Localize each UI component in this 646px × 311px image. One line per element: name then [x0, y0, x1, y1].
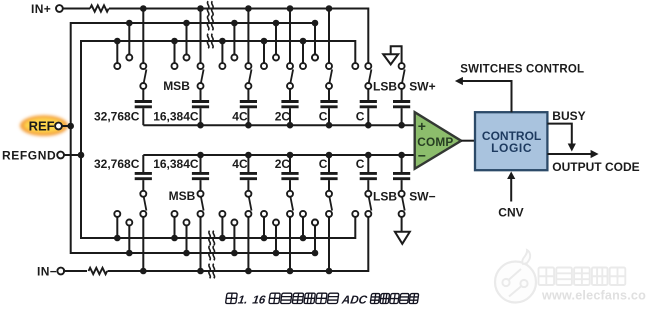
svg-text:MSB: MSB: [169, 189, 196, 203]
switch S9 contact (IN-): [198, 211, 204, 217]
wire IN- rail: [108, 217, 369, 271]
arrowhead BUSY (down): [568, 144, 576, 152]
capacitor C1: [135, 100, 152, 103]
wire stub from switch S10 contact to REFGND rail: [221, 217, 223, 238]
resistor R1 (IN+): [90, 5, 109, 11]
capacitor C7: [393, 100, 410, 103]
wire from capacitor to switch S8 pivot: [142, 180, 144, 191]
switch contact at REF rail top right end: [312, 55, 318, 61]
wire stub from switch S9 contact to REFGND rail: [174, 217, 176, 238]
wire stub from REF rail to switch S1 contact: [126, 20, 133, 27]
control logic block U2: [475, 112, 547, 170]
switch S10 contact (REF): [231, 220, 237, 226]
wire capacitor C13 to switch S13 pivot: [367, 180, 369, 191]
switch S6 lever (LSB): [369, 69, 372, 83]
wire IN- rail segment before resistor: [63, 270, 87, 272]
wire hook from ground to SW+ contact: [391, 46, 402, 63]
wire IN+ rail: [109, 9, 368, 64]
svg-text:C: C: [319, 109, 328, 123]
capacitor C11: [281, 177, 298, 180]
capacitor C9: [192, 177, 209, 180]
wire stub from switch S11 contact to REFGND rail: [263, 217, 265, 238]
wire stub from IN+ rail to switch S2 contact: [197, 5, 204, 12]
capacitor C8: [135, 177, 152, 180]
wire SW- contact to ground: [401, 217, 403, 232]
svg-text:C: C: [356, 157, 365, 171]
ground symbol below SW-: [395, 232, 410, 244]
wire stub from REFGND rail to switch S4 contact: [261, 38, 268, 45]
svg-text:BUSY: BUSY: [552, 109, 585, 123]
wire BUSY from control logic: [547, 124, 571, 144]
switch S13 contact (IN- rail end): [365, 211, 371, 217]
switch S11 lever: [290, 197, 293, 211]
svg-text:REFGND: REFGND: [2, 148, 56, 162]
switch contact at REFGND rail bottom right end (LSB switch): [352, 211, 358, 217]
switch S13 lever (LSB): [369, 197, 372, 211]
switch contact at REFGND rail top right end (LSB switch): [352, 63, 358, 69]
switch S11 contact (REF): [273, 220, 279, 226]
capacitor C13: [360, 177, 377, 180]
svg-text:4C: 4C: [232, 157, 248, 171]
terminal IN-: [57, 268, 64, 275]
wire REFGND terminal to REFGND vertical: [64, 154, 81, 156]
switch S9 contact (REF): [184, 220, 190, 226]
wire comparator - bus to capacitor: [200, 155, 202, 172]
switch S10 contact (IN-): [245, 211, 251, 217]
switch SW+ lever: [402, 69, 405, 83]
wire stub from REFGND rail to switch S1 contact: [114, 38, 121, 45]
break mark on IN- rail: [209, 264, 211, 278]
switch S10 lever: [249, 197, 252, 211]
arrowhead switches control: [455, 77, 463, 85]
break mark on REFGND rail bottom: [209, 231, 211, 245]
wire comparator - bus to capacitor: [142, 155, 144, 172]
svg-text:OUTPUT CODE: OUTPUT CODE: [552, 160, 639, 174]
wire from capacitor to switch S10 pivot: [247, 180, 249, 191]
switch SW- lever: [402, 197, 405, 211]
watermark logo circle: [495, 262, 536, 303]
wire switches control from control logic: [463, 81, 512, 112]
wire stub from REFGND rail to switch S5 contact: [300, 38, 307, 45]
comparator U1: [415, 112, 462, 169]
wire stub from IN+ rail to switch S5 contact: [326, 5, 333, 12]
wire stub from switch S10 contact to REF rail: [233, 225, 235, 253]
wire stub from switch S9 contact to REF rail: [186, 225, 188, 253]
wire stub from REF rail to switch S2 contact: [183, 20, 190, 27]
wire stub from switch S11 contact to IN- rail: [289, 217, 291, 271]
terminal REFGND: [57, 152, 64, 159]
ground symbol above SW+: [383, 54, 398, 64]
switch S4 contact (IN+): [287, 63, 293, 69]
wire stub from REF rail to switch S3 contact: [231, 20, 238, 27]
junction on + bus: [398, 122, 405, 129]
junction on - bus: [326, 152, 333, 159]
switch S3 contact (IN+): [245, 63, 251, 69]
svg-text:LSB: LSB: [373, 79, 397, 93]
svg-text:LSB: LSB: [373, 189, 397, 203]
switch S6 contact (IN+ rail end): [365, 63, 371, 69]
wire stub from REFGND rail to switch S3 contact: [219, 38, 226, 45]
switch S3 contact (REFGND): [219, 63, 225, 69]
switch S1 pivot: [140, 83, 146, 89]
switch SW- contact: [399, 211, 405, 217]
switch S5 pivot: [326, 83, 332, 89]
wire REF terminal to REF vertical: [62, 125, 71, 127]
terminal IN+: [56, 5, 63, 12]
switch S12 lever: [329, 197, 332, 211]
wire stub from IN+ rail to switch S4 contact: [287, 5, 294, 12]
wire stub from switch S8 contact to REFGND rail: [116, 217, 118, 238]
capacitor C5: [320, 100, 337, 103]
wire stub from switch S10 contact to IN- rail: [247, 217, 249, 271]
svg-text:16,384C: 16,384C: [153, 109, 199, 123]
svg-text:32,768C: 32,768C: [94, 157, 140, 171]
wire S6 pivot to capacitor: [367, 89, 369, 100]
svg-text:IN+: IN+: [31, 2, 51, 16]
capacitor C6: [360, 100, 377, 103]
svg-text:−: −: [418, 147, 426, 163]
switch S11 contact (REFGND): [261, 211, 267, 217]
wire from S1 pivot to capacitor: [142, 89, 144, 100]
switch S2 lever: [201, 69, 204, 83]
break mark on IN+ rail: [207, 1, 209, 15]
wire capacitor C14 to switch SW- pivot: [401, 180, 403, 191]
wire from S5 pivot to capacitor: [328, 89, 330, 100]
resistor R2 (IN-): [89, 268, 108, 274]
svg-text:MSB: MSB: [163, 79, 190, 93]
switch S8 contact (REF): [126, 220, 132, 226]
wire stub from switch S8 contact to REF rail: [128, 225, 130, 253]
svg-text:2C: 2C: [275, 109, 291, 123]
svg-text:ADC: ADC: [340, 294, 368, 306]
wire stub from REFGND rail to switch S2 contact: [171, 38, 178, 45]
switch S9 contact (REFGND): [172, 211, 178, 217]
wire CNV input: [510, 179, 512, 202]
switch S5 lever: [329, 69, 332, 83]
svg-text:4C: 4C: [232, 109, 248, 123]
switch S1 contact (REF): [126, 55, 132, 61]
wire comparator - bus to capacitor: [289, 155, 291, 172]
wire SW+ pivot to capacitor C7: [401, 89, 403, 100]
wire from capacitor to switch S11 pivot: [289, 180, 291, 191]
wire stub from REF rail to switch S4 contact: [273, 20, 280, 27]
switch S4 contact (REF): [273, 55, 279, 61]
switch S5 contact (IN+): [326, 63, 332, 69]
svg-text:+: +: [418, 118, 426, 134]
wire REFGND rail top / REFGND vertical / REFGND rail bottom: [81, 41, 355, 238]
capacitor C3: [240, 100, 257, 103]
switch S12 pivot: [326, 191, 332, 197]
switch SW+ contact: [399, 63, 405, 69]
junction on + bus: [287, 122, 294, 129]
svg-text:SW+: SW+: [409, 79, 435, 93]
switch S12 contact (REF): [312, 220, 318, 226]
wire from capacitor to switch S9 pivot: [200, 180, 202, 191]
wire from capacitor to switch S12 pivot: [328, 180, 330, 191]
switch S1 lever: [144, 69, 147, 83]
wire IN+ rail segment before resistor: [63, 8, 90, 10]
switch S9 pivot: [198, 191, 204, 197]
capacitor C14: [393, 177, 410, 180]
svg-text:CNV: CNV: [498, 206, 523, 220]
svg-text:16,384C: 16,384C: [153, 157, 199, 171]
junction on + bus: [365, 122, 372, 129]
arrowhead CNV (up): [507, 172, 515, 180]
wire - bus to capacitor C14: [401, 155, 403, 172]
wire capacitor to comparator + bus: [142, 108, 144, 125]
svg-text:C: C: [356, 109, 365, 123]
switch S4 pivot: [287, 83, 293, 89]
junction on + bus: [326, 122, 333, 129]
switch S12 contact (IN-): [326, 211, 332, 217]
terminal REF: [55, 123, 62, 130]
switch S8 contact (IN-): [140, 211, 146, 217]
caption figure title: [225, 293, 419, 306]
switch S8 pivot: [140, 191, 146, 197]
break mark on REFGND rail top: [207, 34, 209, 48]
wire - bus to capacitor C13: [367, 155, 369, 172]
svg-text:16: 16: [252, 294, 267, 306]
wire capacitor to comparator + bus: [367, 108, 369, 125]
switch S6 pivot (LSB): [365, 83, 371, 89]
switch S2 contact (REF): [184, 55, 190, 61]
switch S5 contact (REF): [312, 55, 318, 61]
svg-text:1.: 1.: [237, 294, 248, 306]
wire from S2 pivot to capacitor: [200, 89, 202, 100]
capacitor C10: [240, 177, 257, 180]
svg-text:LOGIC: LOGIC: [491, 141, 532, 155]
wire OUTPUT CODE from control logic: [547, 153, 591, 155]
svg-text:SW−: SW−: [409, 189, 435, 203]
switch S1 contact (REFGND): [114, 63, 120, 69]
switch S4 contact (REFGND): [261, 63, 267, 69]
switch S13 pivot (LSB): [365, 191, 371, 197]
arrowhead OUTPUT CODE: [591, 150, 599, 158]
wire comparator output to control logic: [461, 140, 475, 142]
wire capacitor to comparator + bus: [289, 108, 291, 125]
switch S2 contact (REFGND): [172, 63, 178, 69]
svg-text:www.elecfans.com: www.elecfans.com: [541, 289, 646, 303]
wire stub from switch S11 contact to REF rail: [275, 225, 277, 253]
switch S2 contact (IN+): [198, 63, 204, 69]
wire from S3 pivot to capacitor: [247, 89, 249, 100]
switch S3 lever: [249, 69, 252, 83]
switch S12 contact (REFGND): [300, 211, 306, 217]
switch S10 contact (REFGND): [219, 211, 225, 217]
junction on - bus: [197, 152, 204, 159]
switch S2 pivot: [198, 83, 204, 89]
switch S11 contact (IN-): [287, 211, 293, 217]
switch S9 lever: [201, 197, 204, 211]
switch S3 pivot: [245, 83, 251, 89]
switch S8 contact (REFGND): [114, 211, 120, 217]
junction on + bus: [245, 122, 252, 129]
wire from S4 pivot to capacitor: [289, 89, 291, 100]
switch S1 contact (IN+): [140, 63, 146, 69]
switch S8 lever: [144, 197, 147, 211]
wire stub from switch S12 contact to REF rail: [314, 225, 316, 253]
wire stub from REF rail to switch S5 contact: [312, 20, 319, 27]
wire - bus (bottom capacitor common plate to comparator): [143, 154, 414, 156]
break mark on REF rail bottom: [209, 246, 211, 260]
wire stub from switch S12 contact to REFGND rail: [302, 217, 304, 238]
switch S10 pivot: [245, 191, 251, 197]
wire capacitor to comparator + bus: [247, 108, 249, 125]
wire capacitor to comparator + bus: [401, 108, 403, 125]
switch SW- pivot: [399, 191, 405, 197]
junction on - bus: [245, 152, 252, 159]
wire + bus (top capacitor common plate to comparator): [143, 124, 414, 126]
junction on - bus: [287, 152, 294, 159]
wire capacitor to comparator + bus: [328, 108, 330, 125]
wire capacitor to comparator + bus: [200, 108, 202, 125]
capacitor C4: [281, 100, 298, 103]
junction on + bus: [197, 122, 204, 129]
svg-text:REF: REF: [29, 118, 55, 133]
svg-text:C: C: [319, 157, 328, 171]
break mark on REF rail top: [207, 16, 209, 30]
wire stub from IN+ rail to switch S3 contact: [245, 5, 252, 12]
switch S5 contact (REFGND): [300, 63, 306, 69]
svg-text:32,768C: 32,768C: [94, 109, 140, 123]
wire stub from IN+ rail to switch S1 contact: [140, 5, 147, 12]
wire stub from switch S12 contact to IN- rail: [328, 217, 330, 271]
switch S11 pivot: [287, 191, 293, 197]
switch S3 contact (REF): [231, 55, 237, 61]
watermark site name glyphs: [539, 268, 555, 286]
switch S4 lever: [290, 69, 293, 83]
wire stub from switch S8 contact to IN- rail: [142, 217, 144, 271]
svg-text:IN−: IN−: [37, 265, 57, 279]
capacitor C2: [192, 100, 209, 103]
capacitor C12: [320, 177, 337, 180]
switch SW+ pivot: [399, 83, 405, 89]
svg-text:2C: 2C: [275, 157, 291, 171]
switch contact at REF rail bottom right end: [312, 220, 318, 226]
wire comparator - bus to capacitor: [247, 155, 249, 172]
svg-text:SWITCHES CONTROL: SWITCHES CONTROL: [460, 64, 584, 76]
wire REF rail top / REF vertical / REF rail bottom: [71, 23, 315, 253]
svg-text:COMP: COMP: [417, 135, 453, 149]
wire stub from switch S9 contact to IN- rail: [200, 217, 202, 271]
wire comparator - bus to capacitor: [328, 155, 330, 172]
